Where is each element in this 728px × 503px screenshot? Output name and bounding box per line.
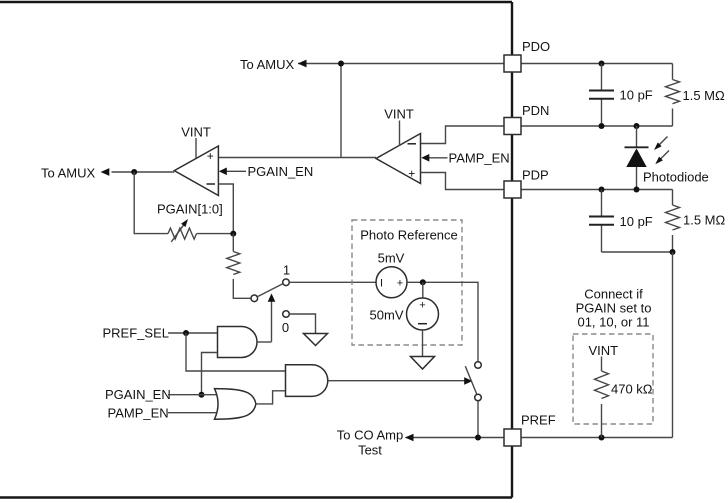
svg-text:+: + bbox=[419, 300, 425, 312]
svg-text:1.5 MΩ: 1.5 MΩ bbox=[683, 88, 726, 103]
svg-text:Photodiode: Photodiode bbox=[643, 170, 709, 185]
light arrow 2 into photodiode bbox=[655, 151, 669, 165]
arrow PGAIN_EN into U1 bbox=[219, 168, 246, 176]
svg-text:+: + bbox=[408, 167, 415, 181]
wire feedback down and to resistor bbox=[134, 172, 168, 234]
wire vertical from PDO row to amp output node bbox=[340, 64, 342, 158]
svg-text:PDP: PDP bbox=[522, 168, 549, 183]
wire PAMP_EN to OR gate bbox=[168, 412, 221, 414]
light arrow 1 into photodiode bbox=[654, 137, 668, 151]
wire VINT into U2 bbox=[399, 121, 401, 147]
svg-text:1: 1 bbox=[283, 263, 290, 278]
or-gate O1 bbox=[215, 389, 256, 420]
wire PGAIN_EN to OR gate bbox=[168, 394, 220, 396]
node junction photodiode anode bbox=[634, 187, 640, 193]
wire U1 output to To AMUX left bbox=[112, 171, 175, 173]
node junction photodiode cathode bbox=[634, 123, 640, 129]
svg-text:VINT: VINT bbox=[589, 343, 619, 358]
ground G2 bbox=[411, 357, 435, 370]
node junction feedback branch bbox=[131, 169, 137, 175]
arrow To CO Amp Test bbox=[405, 434, 414, 442]
and-gate A1 bbox=[218, 327, 258, 358]
wire feedback resistor to minus node bbox=[197, 233, 234, 235]
svg-text:PGAIN set to: PGAIN set to bbox=[576, 301, 652, 316]
node junction SW2 on PREF row bbox=[475, 435, 481, 441]
arrow PAMP_EN into U2 bbox=[421, 154, 447, 162]
svg-text:PAMP_EN: PAMP_EN bbox=[108, 406, 169, 421]
switch SW2 top contact bbox=[475, 362, 482, 369]
wire PREF row bbox=[406, 437, 673, 439]
wire PDP row bbox=[421, 173, 673, 190]
resistor R5 (470 kΩ) bbox=[595, 357, 609, 438]
node junction feedback / series resistor bbox=[230, 231, 236, 237]
dashed box Connect if bbox=[573, 334, 653, 424]
wire PDO row (To AMUX top to right network) bbox=[298, 63, 673, 65]
resistor R4 series to switch bbox=[227, 234, 251, 299]
svg-text:PGAIN_EN: PGAIN_EN bbox=[248, 164, 314, 179]
svg-text:PDN: PDN bbox=[522, 103, 549, 118]
wire A2 output to PREF switch bbox=[328, 377, 473, 385]
node junction capacitor C1 top bbox=[599, 61, 605, 67]
switch SW1 blade bbox=[257, 284, 283, 297]
svg-text:VINT: VINT bbox=[181, 125, 211, 140]
ground G1 bbox=[304, 334, 328, 346]
photodiode D1 bbox=[625, 126, 649, 190]
wire bottom of C2/R2 pair bbox=[602, 251, 673, 253]
dashed box Photo Reference bbox=[352, 220, 462, 345]
resistor R2 (1.5 MΩ) bbox=[666, 190, 680, 253]
wire V2 to ground bbox=[422, 330, 424, 357]
capacitor C1 (10 pF) bbox=[589, 64, 614, 127]
arrow To AMUX top bbox=[298, 60, 307, 68]
svg-text:01, 10, or 11: 01, 10, or 11 bbox=[577, 315, 649, 330]
node junction PREF_SEL branch bbox=[183, 330, 189, 336]
svg-text:Connect if: Connect if bbox=[584, 287, 643, 302]
wire U2 output to U1 + input bbox=[218, 157, 376, 159]
chip boundary bottom edge bbox=[0, 496, 512, 498]
wire A1 output to select arrow bbox=[257, 341, 272, 343]
arrow To AMUX left bbox=[101, 168, 110, 176]
svg-text:5mV: 5mV bbox=[378, 251, 405, 266]
voltage source V2 50mV bbox=[407, 298, 439, 330]
svg-text:+: + bbox=[207, 149, 214, 163]
switch SW1 contact 0 bbox=[283, 311, 290, 318]
node junction right rail top bbox=[670, 249, 676, 255]
voltage source V1 5mV bbox=[376, 267, 407, 298]
svg-text:To CO Amp: To CO Amp bbox=[337, 428, 403, 443]
svg-text:VINT: VINT bbox=[384, 107, 414, 122]
svg-text:PGAIN[1:0]: PGAIN[1:0] bbox=[157, 202, 223, 217]
switch SW2 blade bbox=[465, 366, 476, 394]
svg-text:I: I bbox=[380, 277, 383, 289]
wire O1 output to AND2 input 2 bbox=[256, 391, 286, 404]
svg-text:0: 0 bbox=[282, 320, 289, 335]
wire V1 to switch node bbox=[407, 282, 478, 361]
wire contact 0 to ground bbox=[289, 314, 315, 334]
wire SW2 to PREF row bbox=[477, 401, 479, 438]
node junction V1/V2 bbox=[420, 279, 426, 285]
svg-text:470 kΩ: 470 kΩ bbox=[611, 382, 653, 397]
svg-text:10 pF: 10 pF bbox=[620, 88, 653, 103]
node junction capacitor C2 top bbox=[599, 187, 605, 193]
chip boundary top edge bbox=[0, 1, 512, 3]
svg-text:PGAIN_EN: PGAIN_EN bbox=[105, 387, 171, 402]
svg-text:Test: Test bbox=[358, 443, 382, 458]
svg-text:PREF_SEL: PREF_SEL bbox=[103, 326, 169, 341]
pin PDP bbox=[504, 181, 521, 198]
resistor R1 (1.5 MΩ) bbox=[666, 64, 680, 127]
svg-text:Photo Reference: Photo Reference bbox=[360, 228, 458, 243]
svg-text:1.5 MΩ: 1.5 MΩ bbox=[683, 213, 726, 228]
capacitor C2 (10 pF) bbox=[589, 190, 614, 253]
wire right rail down to PREF row bbox=[672, 252, 674, 438]
svg-text:+: + bbox=[397, 277, 403, 289]
wire A1 input 2 bbox=[202, 353, 218, 395]
chip boundary right edge bbox=[511, 2, 513, 498]
svg-text:To AMUX: To AMUX bbox=[41, 166, 96, 181]
switch SW2 bottom contact bbox=[475, 394, 482, 401]
wire PREF_SEL to AND1 bbox=[168, 332, 218, 334]
pin PDO bbox=[504, 55, 521, 72]
op-amp U2 PAMP bbox=[376, 134, 421, 184]
svg-text:PREF: PREF bbox=[521, 413, 556, 428]
svg-text:PDO: PDO bbox=[522, 39, 550, 54]
pin PREF bbox=[504, 429, 521, 446]
svg-text:10 pF: 10 pF bbox=[620, 214, 653, 229]
switch SW1 pivot contact bbox=[251, 295, 258, 302]
node junction capacitor C1 bottom bbox=[599, 123, 605, 129]
arrow select into SW1 bbox=[268, 293, 276, 341]
svg-text:50mV: 50mV bbox=[370, 308, 404, 323]
wire contact 1 to 5mV source bbox=[289, 281, 376, 283]
wire VINT into U1 bbox=[195, 138, 197, 158]
wire node to V2 top bbox=[422, 282, 424, 298]
switch SW1 contact 1 bbox=[283, 279, 290, 286]
wire PDN row bbox=[421, 126, 673, 144]
svg-text:PAMP_EN: PAMP_EN bbox=[449, 151, 510, 166]
node junction R5 on PREF row bbox=[599, 435, 605, 441]
wire PREF_SEL branch to AND2 input 1 bbox=[186, 333, 286, 371]
pin PDN bbox=[504, 118, 521, 135]
resistor R3 variable PGAIN[1:0] bbox=[168, 219, 197, 242]
wire U1 minus input jog bbox=[218, 184, 233, 234]
node junction PDO-AMUX branch bbox=[338, 61, 344, 67]
svg-text:To AMUX: To AMUX bbox=[240, 57, 295, 72]
op-amp U1 PGAIN bbox=[174, 146, 218, 196]
and-gate A2 bbox=[286, 365, 328, 397]
node junction PGAIN_EN branch bbox=[199, 392, 205, 398]
